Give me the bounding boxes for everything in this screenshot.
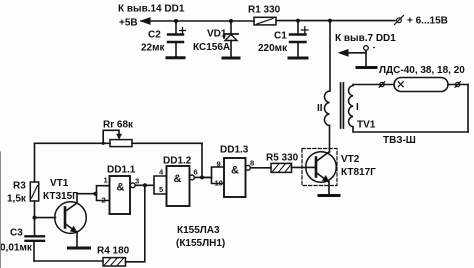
trimmer wiper xyxy=(103,130,119,143)
transistor VT2 xyxy=(306,152,337,183)
wire transformer drop xyxy=(329,21,331,91)
svg-text:5: 5 xyxy=(159,185,163,194)
transformer TV1 winding I xyxy=(349,86,353,127)
resistor R3 xyxy=(30,182,38,201)
ground (VT1 emitter) xyxy=(69,247,90,250)
wire DD1.1 output xyxy=(135,184,145,186)
svg-text:R3: R3 xyxy=(13,181,26,192)
svg-text:8: 8 xyxy=(250,159,254,168)
ground (C2) xyxy=(167,56,184,59)
svg-text:6: 6 xyxy=(194,168,198,177)
node junction transformer drop xyxy=(328,19,332,23)
resistor R4 xyxy=(103,258,126,266)
svg-text:КС156А: КС156А xyxy=(193,42,230,53)
resistor Rr 68k xyxy=(110,140,132,147)
lamp connector left xyxy=(380,82,384,86)
node junction base xyxy=(33,216,37,220)
node junction C1 xyxy=(296,19,300,23)
svg-text:22мк: 22мк xyxy=(141,43,166,54)
svg-text:К выв.14 DD1: К выв.14 DD1 xyxy=(118,4,185,15)
svg-text:VD1: VD1 xyxy=(207,29,227,40)
svg-text:К выв.7 DD1: К выв.7 DD1 xyxy=(335,33,396,44)
wire feedback top xyxy=(35,142,203,144)
wire DD1.3 inputs xyxy=(202,167,224,184)
svg-text:I: I xyxy=(356,102,359,113)
wire lamp top right xyxy=(448,84,468,86)
wire VD1 drop xyxy=(230,21,232,34)
ground (VD1) xyxy=(223,57,239,60)
lamp electrode x xyxy=(398,82,403,87)
transistor VT2 dashed case xyxy=(302,149,337,186)
wire top rail right segment (R1 to +6..15V terminal) xyxy=(276,20,395,22)
zener diode VD1 xyxy=(224,34,238,38)
svg-text:VT2: VT2 xyxy=(341,154,360,165)
svg-text:0,01мк: 0,01мк xyxy=(0,243,33,254)
wire feedback to R3 xyxy=(34,143,36,182)
svg-text:C3: C3 xyxy=(10,228,23,239)
wire DD1.2 inputs xyxy=(145,176,167,194)
wire R5 to VT2 base xyxy=(292,166,316,168)
wire R3 to base node xyxy=(34,201,36,218)
wire feedback riser xyxy=(201,143,203,177)
svg-text:VT1: VT1 xyxy=(50,178,69,189)
capacitor C1 xyxy=(290,33,306,35)
svg-text:+ 6...15В: + 6...15В xyxy=(407,16,448,27)
svg-text:DD1.3: DD1.3 xyxy=(220,145,249,156)
svg-text:К155ЛА3: К155ЛА3 xyxy=(177,225,220,236)
ground (pin7) xyxy=(357,66,376,69)
arrow to +5V (left pointing) xyxy=(141,18,150,24)
wire DD1.2 output xyxy=(195,176,212,178)
capacitor C3 xyxy=(34,218,36,236)
wire lamp top left xyxy=(353,85,394,86)
node junction VT1 collector xyxy=(93,192,97,196)
svg-text:ТВЗ-Ш: ТВЗ-Ш xyxy=(383,135,416,146)
svg-text:КТ315Г: КТ315Г xyxy=(43,191,78,202)
wire lamp bottom xyxy=(353,127,468,132)
svg-text:DD1.2: DD1.2 xyxy=(163,156,192,167)
svg-text:&: & xyxy=(117,182,125,194)
wire bottom left xyxy=(34,260,103,262)
wire pin7 arrow xyxy=(347,52,366,54)
svg-text:3: 3 xyxy=(135,177,139,186)
wire DD1.3 out to R5 xyxy=(251,167,272,169)
ground (VT2 emitter) xyxy=(319,194,339,197)
node junction VD1 xyxy=(229,19,233,23)
wire top rail left segment (+5V to R1) xyxy=(141,20,254,22)
lamp ЛДС xyxy=(394,78,448,92)
svg-text:1: 1 xyxy=(104,176,108,185)
svg-text:DD1.1: DD1.1 xyxy=(107,165,136,176)
transformer core xyxy=(341,83,344,128)
wire C1 drop xyxy=(297,21,299,34)
terminal +6...15V xyxy=(397,18,402,23)
svg-text:+5В: +5В xyxy=(119,18,138,29)
wire lamp right edge xyxy=(467,85,469,133)
svg-text:1,5к: 1,5к xyxy=(7,194,27,205)
svg-text:R5 330: R5 330 xyxy=(266,153,299,164)
wire bottom right riser xyxy=(126,185,145,261)
svg-text:TV1: TV1 xyxy=(357,120,376,131)
transistor VT1 xyxy=(35,217,56,219)
node junction DD1.2 out xyxy=(200,175,204,179)
resistor R5 xyxy=(271,163,292,172)
ground (C1) xyxy=(289,57,307,60)
svg-text:220мк: 220мк xyxy=(258,43,288,54)
wire DD1.1 inputs xyxy=(95,186,109,201)
svg-text:КТ817Г: КТ817Г xyxy=(341,167,376,178)
svg-text:R1 330: R1 330 xyxy=(248,5,281,16)
svg-text:R4 180: R4 180 xyxy=(97,246,130,257)
svg-text:&: & xyxy=(174,173,182,185)
wire winding II to VT2 collector xyxy=(329,126,331,153)
node junction C2 xyxy=(174,19,178,23)
svg-text:C1: C1 xyxy=(274,31,287,42)
transformer TV1 winding II xyxy=(324,91,329,126)
lamp connector right xyxy=(456,82,460,86)
wire C2 drop xyxy=(175,21,177,34)
svg-text:ЛДС-40, 38, 18, 20: ЛДС-40, 38, 18, 20 xyxy=(379,65,465,76)
svg-text:&: & xyxy=(231,165,239,177)
capacitor C2 xyxy=(168,33,183,35)
svg-text:(К155ЛН1): (К155ЛН1) xyxy=(176,238,225,249)
svg-text:II: II xyxy=(317,103,323,114)
node junction DD1.1 out xyxy=(143,183,147,187)
svg-text:Rr 68к: Rr 68к xyxy=(103,120,134,131)
svg-text:C2: C2 xyxy=(148,30,161,41)
scan artifact left edge xyxy=(0,152,2,268)
resistor R1 xyxy=(254,17,276,25)
